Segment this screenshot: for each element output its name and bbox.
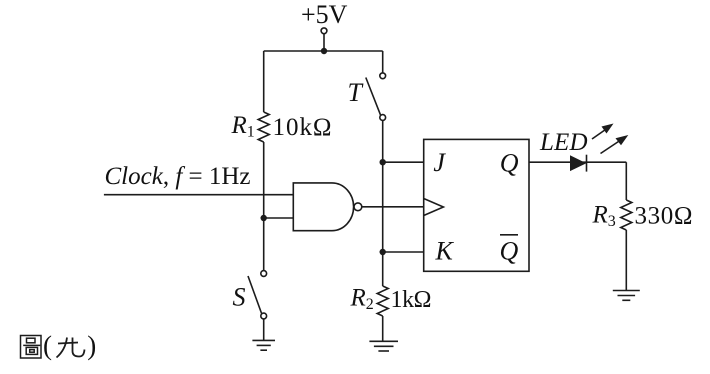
resistor R1 xyxy=(258,112,269,142)
switch T blade xyxy=(366,78,381,116)
junction dot at top rail xyxy=(321,48,327,54)
svg-text:(: ( xyxy=(43,330,52,360)
resistor R3 xyxy=(621,200,632,230)
wire right rail lower xyxy=(382,120,384,286)
svg-text:Clock, f = 1Hz: Clock, f = 1Hz xyxy=(105,163,251,190)
wire NAND second input xyxy=(264,217,294,219)
svg-text:): ) xyxy=(87,330,96,360)
caption 圖(九) drawn glyphs xyxy=(21,336,42,359)
wire clock input xyxy=(104,194,293,196)
wire from +5V terminal to top rail xyxy=(323,34,325,51)
svg-text:T: T xyxy=(348,78,364,107)
wire left rail upper segment xyxy=(263,51,265,112)
svg-text:LED: LED xyxy=(539,129,588,156)
LED light arrow 1 xyxy=(592,124,614,140)
wire NAND output to flip-flop clock xyxy=(362,206,424,208)
overbar of Q-bar xyxy=(500,234,518,236)
glyph 圖 lower inner mark xyxy=(30,350,35,353)
resistor R2 xyxy=(377,286,388,316)
glyph 圖 inner top small box xyxy=(27,338,36,343)
wire J input xyxy=(383,161,424,163)
svg-text:R2: R2 xyxy=(350,285,374,314)
ground under S xyxy=(252,340,275,350)
switch T top terminal xyxy=(380,73,386,79)
wire S to ground xyxy=(263,319,265,341)
svg-text:+5V: +5V xyxy=(301,0,348,29)
junction dot J input xyxy=(380,159,386,165)
LED cathode bar xyxy=(586,155,588,172)
svg-text:S: S xyxy=(233,283,246,312)
glyph 九 xyxy=(57,338,85,358)
svg-text:1kΩ: 1kΩ xyxy=(391,287,432,313)
flip-flop clock edge triangle xyxy=(424,199,444,216)
switch S blade xyxy=(248,276,262,314)
wire right rail top xyxy=(382,51,384,73)
wire R3 to ground xyxy=(625,230,627,291)
glyph 圖 lower box xyxy=(26,347,37,354)
svg-text:R1: R1 xyxy=(231,112,255,141)
svg-text:Q: Q xyxy=(500,237,519,266)
flip-flop U2 box xyxy=(424,139,529,271)
glyph 圖 outer box xyxy=(21,336,42,359)
switch S bottom terminal xyxy=(261,313,267,319)
ground under R3 xyxy=(613,291,640,301)
+5V terminal circle xyxy=(321,28,327,34)
switch T bottom terminal xyxy=(380,115,386,121)
NAND gate output bubble xyxy=(354,203,362,211)
svg-text:J: J xyxy=(433,148,446,177)
ground under R2 xyxy=(369,341,398,351)
svg-text:Q: Q xyxy=(500,149,519,178)
NAND gate U1 body xyxy=(293,183,353,231)
svg-text:R3: R3 xyxy=(592,202,616,231)
wire top horizontal rail xyxy=(264,50,383,52)
svg-text:330Ω: 330Ω xyxy=(635,203,693,230)
LED D1 anode triangle xyxy=(570,155,586,171)
glyph 圖 middle horizontal stroke xyxy=(23,344,40,346)
LED light arrow 2 xyxy=(601,135,629,154)
junction dot NAND second input xyxy=(261,215,267,221)
wire left rail lower segment xyxy=(263,142,265,271)
svg-text:10kΩ: 10kΩ xyxy=(273,114,332,141)
wire from LED down to R3 xyxy=(625,162,627,200)
switch S top terminal xyxy=(261,271,267,277)
wire Q output xyxy=(529,161,626,163)
svg-text:K: K xyxy=(435,237,455,266)
wire K input xyxy=(383,251,424,253)
wire R2 to ground xyxy=(382,316,384,341)
junction dot K input xyxy=(380,249,386,255)
